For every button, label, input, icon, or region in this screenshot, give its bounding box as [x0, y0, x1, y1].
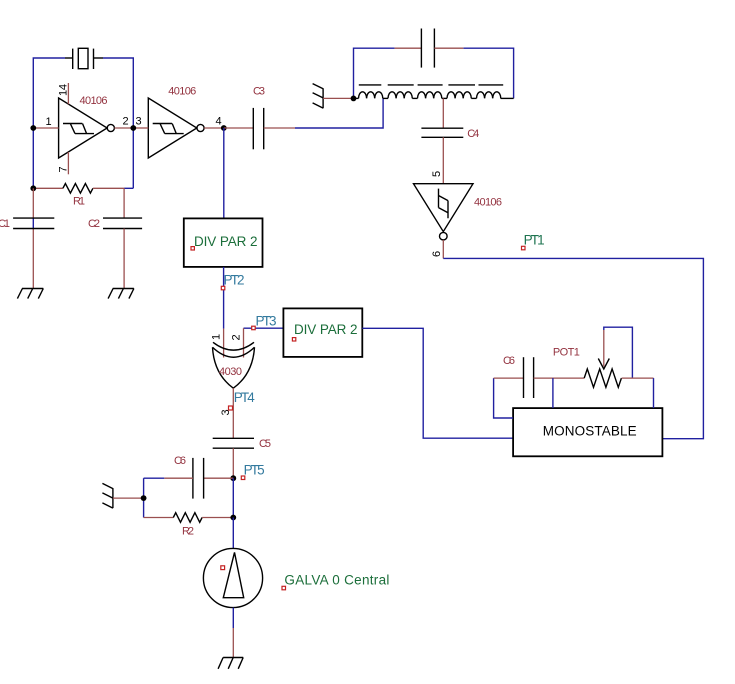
- node pin1: [30, 125, 36, 131]
- node coil left: [351, 96, 357, 102]
- pin 14 lead: [67, 83, 69, 104]
- potentiometer POT1: [584, 330, 621, 387]
- svg-text:PT5: PT5: [244, 463, 265, 478]
- wire pin4 to box1: [223, 128, 225, 218]
- marker box1: [191, 247, 194, 250]
- capacitor C6 upper: [524, 357, 534, 398]
- svg-text:14: 14: [58, 84, 70, 96]
- wire PT5 to R2 node blue: [232, 478, 234, 517]
- xor gate U2 4030: [213, 342, 255, 388]
- wire POT wiper loop blue: [604, 327, 633, 378]
- ground under C1: [17, 289, 43, 299]
- wire C3 to coil tap blue: [295, 98, 383, 128]
- marker galva label: [282, 586, 286, 590]
- svg-text:40106: 40106: [80, 95, 108, 107]
- wire pin1 input: [33, 127, 58, 129]
- svg-text:C6: C6: [503, 355, 515, 367]
- wire crystal top right blue: [103, 58, 133, 188]
- wire U1A output: [114, 127, 133, 129]
- galvanometer M1: [203, 548, 262, 607]
- capacitor C6 lower: [193, 458, 204, 499]
- wire box1 to PT2: [223, 267, 225, 329]
- svg-text:7: 7: [58, 166, 70, 172]
- wire C3 right red: [264, 127, 295, 129]
- pin 6 lead: [442, 240, 444, 258]
- svg-text:2: 2: [231, 334, 243, 340]
- node pin2-3: [130, 125, 136, 131]
- ground under C2: [108, 289, 134, 299]
- capacitor C2: [103, 218, 142, 228]
- svg-text:6: 6: [431, 251, 443, 257]
- svg-text:40106: 40106: [474, 197, 502, 209]
- capacitor C5: [213, 438, 254, 448]
- chassis ground left of coil: [313, 84, 324, 109]
- marker box2: [292, 338, 295, 341]
- wire galva to ground: [232, 608, 234, 658]
- capacitor tank top: [395, 29, 464, 68]
- wire PT1 run blue: [443, 258, 703, 438]
- PT5 marker: [241, 476, 245, 480]
- op-amp U1C inverter 40106 pointing down: [414, 184, 474, 240]
- box DIV PAR 2 #1: [184, 218, 263, 267]
- wire branch to monostable top2: [653, 378, 655, 408]
- wire pin4 to C3: [224, 127, 254, 129]
- svg-text:C2: C2: [88, 218, 100, 230]
- wire C6 to POT1: [534, 377, 585, 379]
- node R1 left: [30, 185, 36, 191]
- capacitor C3: [253, 108, 263, 149]
- wire top cap left blue: [354, 48, 395, 98]
- marker galva: [221, 566, 225, 570]
- op-amp U1A inverter 40106: [59, 98, 115, 158]
- svg-text:PT3: PT3: [256, 314, 277, 329]
- crystal X1: [65, 48, 103, 69]
- chassis ground near C6: [102, 483, 113, 508]
- wire C2 stem: [123, 188, 125, 218]
- svg-text:1: 1: [46, 116, 52, 128]
- wire XOR pin2 lead: [243, 328, 245, 357]
- wire ground to coil node: [323, 97, 353, 99]
- svg-text:40106: 40106: [168, 86, 196, 98]
- wire PT3 corner to box2: [244, 327, 284, 329]
- wire XOR output: [232, 388, 234, 438]
- inductor core dashes: [359, 84, 503, 86]
- wire coil tap to C4: [442, 98, 444, 128]
- wire branch to monostable top1: [552, 378, 554, 408]
- svg-text:MONOSTABLE: MONOSTABLE: [543, 424, 637, 439]
- svg-text:PT1: PT1: [524, 233, 545, 248]
- svg-text:C4: C4: [467, 128, 479, 140]
- inductor L1 winding: [354, 92, 514, 99]
- box DIV PAR 2 #2: [283, 308, 362, 357]
- svg-text:PT2: PT2: [224, 273, 245, 288]
- svg-text:5: 5: [431, 171, 443, 177]
- wire U1B output: [204, 127, 224, 129]
- PT4 marker: [229, 406, 233, 410]
- wire box2 to monostable: [362, 328, 513, 438]
- ground below galvanometer: [218, 658, 243, 669]
- svg-text:4030: 4030: [219, 366, 242, 378]
- wire node to galva: [232, 518, 234, 549]
- wire XOR pin1 lead: [223, 329, 225, 358]
- svg-text:C3: C3: [253, 86, 265, 98]
- capacitor C4: [421, 128, 463, 137]
- wire crystal top left blue: [33, 58, 65, 188]
- wire C4 to pin5: [442, 137, 444, 183]
- node pin4: [221, 125, 227, 131]
- op-amp U1B inverter 40106: [148, 98, 204, 158]
- svg-text:R1: R1: [73, 196, 85, 208]
- svg-text:DIV PAR 2: DIV PAR 2: [194, 234, 258, 249]
- PT3 marker: [252, 326, 256, 330]
- svg-text:3: 3: [136, 116, 142, 128]
- svg-text:2: 2: [123, 116, 129, 128]
- PT2 marker: [221, 286, 225, 290]
- svg-text:R2: R2: [182, 526, 194, 538]
- wire ground to node: [113, 497, 144, 499]
- svg-text:POT1: POT1: [553, 347, 580, 359]
- svg-text:PT4: PT4: [234, 390, 255, 405]
- capacitor C1: [13, 218, 54, 228]
- node ground branch: [141, 495, 147, 501]
- PT1 marker: [522, 246, 526, 250]
- node R2 right: [230, 515, 236, 521]
- node PT5: [230, 475, 236, 481]
- svg-text:1: 1: [211, 334, 223, 340]
- box MONOSTABLE: [513, 408, 662, 456]
- wire PT5 to C6: [204, 477, 234, 479]
- wire C1 stem: [32, 188, 34, 288]
- wire C2 to ground: [123, 229, 125, 289]
- svg-text:C6: C6: [174, 455, 186, 467]
- wire POT horizontal left red: [494, 377, 524, 379]
- wire POT right red: [622, 377, 654, 379]
- svg-text:C5: C5: [259, 438, 271, 450]
- pin 7 lead: [67, 152, 69, 174]
- wire top cap right blue: [463, 48, 513, 98]
- wire C6 left to corner: [144, 478, 193, 517]
- wire U1B input: [133, 127, 148, 129]
- svg-text:4: 4: [216, 116, 222, 128]
- wire C5 to PT5: [232, 448, 234, 478]
- wire C6 loop left: [494, 378, 513, 418]
- svg-text:DIV PAR 2: DIV PAR 2: [294, 322, 358, 337]
- resistor R1: [33, 184, 133, 194]
- svg-text:GALVA 0 Central: GALVA 0 Central: [284, 573, 389, 588]
- resistor R2: [144, 513, 234, 523]
- svg-text:C1: C1: [0, 218, 10, 230]
